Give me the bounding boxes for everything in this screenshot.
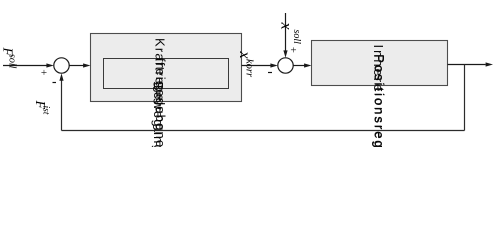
- svg-text:+: +: [41, 67, 47, 79]
- label F ist: [32, 100, 51, 115]
- svg-text:+: +: [290, 45, 296, 57]
- text Innere Positionsregelung column: [371, 45, 387, 192]
- wire output: [448, 64, 486, 66]
- block outer Kraftregelung: [91, 34, 242, 102]
- wire x soll vertical: [285, 13, 287, 52]
- svg-text:soll: soll: [7, 54, 18, 69]
- label F soll: [0, 47, 18, 69]
- label x korr: [236, 51, 255, 78]
- summing junction S2: [278, 58, 293, 73]
- wire input F soll: [3, 65, 48, 67]
- summing junction S1: [54, 58, 69, 73]
- text Kraftregelung column: [151, 38, 168, 191]
- label x soll: [278, 22, 303, 45]
- svg-text:Positionsregelung: Positionsregelung: [372, 54, 387, 147]
- svg-text:soll: soll: [291, 30, 302, 45]
- wire block to S2: [242, 65, 272, 67]
- minus sign S1: [53, 82, 57, 84]
- minus sign S2: [268, 72, 272, 74]
- svg-text:x: x: [278, 22, 295, 30]
- feedback wire down: [464, 65, 466, 131]
- svg-text:Bewegungsricht: Bewegungsricht: [151, 82, 166, 147]
- feedback wire bottom: [62, 130, 465, 132]
- svg-text:korr: korr: [244, 59, 255, 78]
- feedback wire up into S1: [61, 79, 63, 131]
- block inner: [104, 59, 229, 89]
- block Innere Positionsregelung: [312, 41, 448, 86]
- wire S2 to right block: [293, 65, 305, 67]
- svg-text:ist: ist: [41, 106, 51, 115]
- wire S1 to block: [69, 65, 84, 67]
- svg-text:x: x: [236, 51, 253, 59]
